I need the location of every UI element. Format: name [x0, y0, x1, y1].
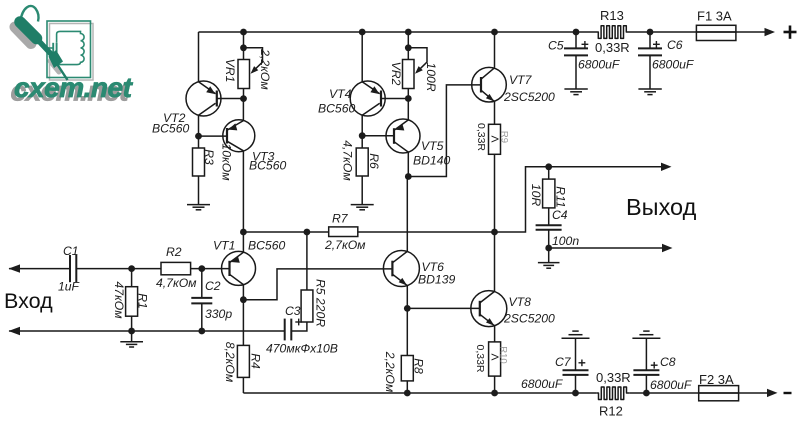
wire input line top	[9, 268, 70, 270]
svg-text:VR1: VR1	[223, 59, 237, 83]
node + terminal arrow	[765, 28, 776, 36]
ground R3	[187, 205, 210, 210]
wire VT2 base to VR1	[217, 98, 244, 100]
svg-text:2,2кОм: 2,2кОм	[258, 48, 272, 90]
svg-text:47кОм: 47кОм	[112, 281, 126, 319]
capacitor C5	[548, 32, 621, 89]
svg-text:BC560: BC560	[249, 159, 286, 173]
node input arrow top	[9, 264, 21, 272]
svg-text:R9: R9	[499, 131, 510, 143]
svg-text:VT8: VT8	[509, 295, 532, 309]
svg-text:VT4: VT4	[329, 87, 352, 101]
wire output rail right	[358, 167, 662, 232]
wire output rail	[243, 231, 328, 233]
svg-text:C2: C2	[205, 279, 221, 293]
svg-text:0,33R: 0,33R	[595, 40, 630, 55]
wire VT8 emitter lead	[494, 326, 496, 342]
svg-text:2SC5200: 2SC5200	[503, 312, 555, 326]
resistor R3	[193, 136, 234, 205]
svg-text:R2: R2	[166, 245, 182, 259]
node output arrow	[661, 163, 672, 171]
wire VT1 collector lead	[242, 285, 244, 300]
wire VT5 emitter lead	[407, 99, 409, 120]
svg-text:Вход: Вход	[4, 289, 53, 313]
transistor VT7	[472, 67, 555, 104]
resistor R4	[223, 300, 263, 393]
svg-text:470мкФх10В: 470мкФх10В	[266, 342, 338, 356]
svg-text:Выход: Выход	[626, 194, 697, 220]
wire VT7 emitter lead	[494, 102, 496, 125]
svg-text:C1: C1	[63, 244, 79, 258]
svg-text:VR2: VR2	[389, 62, 403, 86]
svg-text:C3: C3	[285, 304, 301, 318]
svg-text:F2 3A: F2 3A	[699, 372, 734, 387]
svg-text:F1 3A: F1 3A	[697, 9, 732, 24]
wire bottom rail left	[243, 392, 596, 394]
resistor R9	[475, 123, 510, 154]
resistor R12	[596, 387, 629, 400]
svg-text:R13: R13	[600, 8, 624, 23]
wire VT7 collector lead	[494, 32, 496, 68]
resistor R8	[383, 308, 426, 393]
wire input line bottom	[9, 330, 285, 332]
capacitor C2	[191, 269, 232, 331]
resistor R6	[341, 136, 382, 205]
svg-text:BD139: BD139	[418, 273, 455, 287]
wire VT1 emitter lead	[242, 232, 244, 252]
svg-text:BC560: BC560	[248, 239, 285, 253]
transistor VT6	[383, 251, 455, 287]
wire VT6 collector lead	[406, 177, 408, 252]
svg-text:6800uF: 6800uF	[578, 58, 621, 72]
wire top rail right	[629, 31, 765, 33]
svg-text:6800uF: 6800uF	[650, 378, 693, 392]
transistor VT3	[223, 120, 287, 173]
transistor VT8	[471, 291, 555, 327]
potentiometer VR1	[223, 48, 272, 91]
svg-text:cxem.net: cxem.net	[14, 72, 134, 103]
resistor R5	[301, 232, 327, 327]
node - terminal arrow	[767, 389, 778, 397]
svg-text:10R: 10R	[529, 184, 543, 207]
svg-text:4,7кОм: 4,7кОм	[156, 276, 197, 290]
wire VT2 collector lead	[198, 115, 200, 136]
svg-text:0,33R: 0,33R	[474, 344, 486, 372]
wire bottom rail right	[629, 392, 767, 394]
fuse F1	[696, 25, 736, 40]
logo cxem.net	[11, 6, 134, 107]
ground C4	[538, 263, 560, 269]
svg-text:R1: R1	[136, 293, 150, 309]
svg-text:BC560: BC560	[152, 122, 189, 136]
fuse F2	[699, 386, 739, 401]
svg-text:C7: C7	[555, 355, 572, 369]
svg-text:VT7: VT7	[509, 73, 533, 87]
svg-text:C5: C5	[548, 39, 564, 53]
wire VR1 bottom lead	[243, 89, 245, 99]
wire VT4 collector lead	[361, 115, 363, 136]
capacitor C4	[536, 208, 580, 263]
wire VR2 top lead	[407, 32, 409, 60]
node VAS junction	[405, 173, 412, 180]
capacitor C6	[638, 32, 695, 89]
wire R2 to VT1 base	[191, 268, 230, 270]
wire VT3 collector lead	[242, 151, 244, 232]
resistor R2	[156, 245, 197, 290]
capacitor C1	[58, 244, 81, 294]
svg-text:VT1: VT1	[213, 239, 235, 253]
svg-text:0,33R: 0,33R	[475, 123, 487, 151]
wire VT4 emitter lead	[361, 32, 363, 82]
transistor VT4	[318, 81, 385, 116]
ground C5	[564, 89, 587, 95]
ground C6	[638, 89, 661, 95]
node output return arrow	[662, 244, 673, 252]
wire VT3 emitter lead	[242, 99, 244, 121]
wire C1 to R2	[76, 268, 161, 270]
svg-text:2,7кОм: 2,7кОм	[324, 238, 366, 252]
svg-text:330p: 330p	[205, 307, 232, 321]
capacitor C3	[266, 304, 338, 356]
wire VT2 emitter lead	[198, 32, 200, 82]
svg-text:R3: R3	[202, 149, 216, 165]
svg-text:8,2кОм: 8,2кОм	[223, 342, 237, 383]
wire VT3 base	[199, 135, 228, 137]
capacitor C8	[633, 338, 692, 393]
resistor R10	[474, 342, 509, 393]
potentiometer VR2	[389, 48, 438, 92]
wire output return	[549, 247, 663, 249]
svg-text:C4: C4	[552, 208, 568, 222]
resistor R1	[112, 269, 150, 331]
svg-text:6800uF: 6800uF	[521, 377, 564, 391]
resistor R13	[596, 26, 629, 39]
ground R6	[351, 205, 374, 210]
wire VT5 base	[362, 135, 394, 137]
svg-text:10кОм: 10кОм	[220, 143, 234, 181]
node input arrow bottom	[9, 327, 21, 335]
svg-text:C8: C8	[660, 355, 676, 369]
wire R5 to C3	[291, 322, 307, 331]
transistor VT1	[213, 239, 285, 286]
wire VT5 collector to VT7 base	[408, 85, 481, 177]
svg-text:VT5: VT5	[421, 139, 444, 153]
wire top rail left	[199, 31, 597, 33]
ground C7 inverted	[562, 331, 590, 338]
svg-text:R8: R8	[412, 358, 426, 374]
svg-text:R5 220R: R5 220R	[314, 279, 328, 327]
svg-text:R10: R10	[498, 346, 509, 363]
svg-text:BD140: BD140	[413, 154, 450, 168]
svg-text:R11: R11	[554, 186, 568, 207]
svg-text:0,33R: 0,33R	[596, 370, 631, 385]
svg-text:2SC5200: 2SC5200	[503, 90, 555, 104]
svg-text:R7: R7	[332, 212, 349, 226]
svg-text:R12: R12	[599, 404, 623, 419]
svg-text:BC560: BC560	[318, 102, 355, 116]
resistor R7	[324, 212, 366, 253]
wire VR1 top lead	[243, 32, 245, 60]
transistor VT2	[152, 81, 221, 136]
ground input	[120, 331, 143, 347]
ground C8 inverted	[632, 331, 660, 338]
wire VT1 collector to VT6 base	[243, 269, 392, 300]
wire VR2 bottom lead	[407, 89, 409, 99]
wire VT5 collector lead	[407, 152, 409, 176]
wire VT8 base	[407, 307, 480, 309]
wire R9 to VT8 collector	[494, 154, 496, 291]
wire VT4 base to VR2	[381, 98, 408, 100]
resistor R11	[529, 167, 568, 225]
capacitor C7	[521, 338, 589, 393]
wire VT6 emitter lead	[406, 286, 408, 309]
transistor VT5	[386, 119, 450, 168]
svg-text:1uF: 1uF	[58, 280, 81, 294]
svg-text:R6: R6	[367, 153, 381, 169]
svg-text:2,2кОм: 2,2кОм	[383, 351, 397, 393]
svg-text:6800uF: 6800uF	[652, 58, 695, 72]
svg-text:100R: 100R	[424, 62, 438, 91]
svg-text:100n: 100n	[552, 234, 579, 248]
svg-text:4,7кОм: 4,7кОм	[341, 140, 355, 181]
svg-text:C6: C6	[667, 38, 683, 52]
svg-text:R4: R4	[249, 353, 263, 369]
